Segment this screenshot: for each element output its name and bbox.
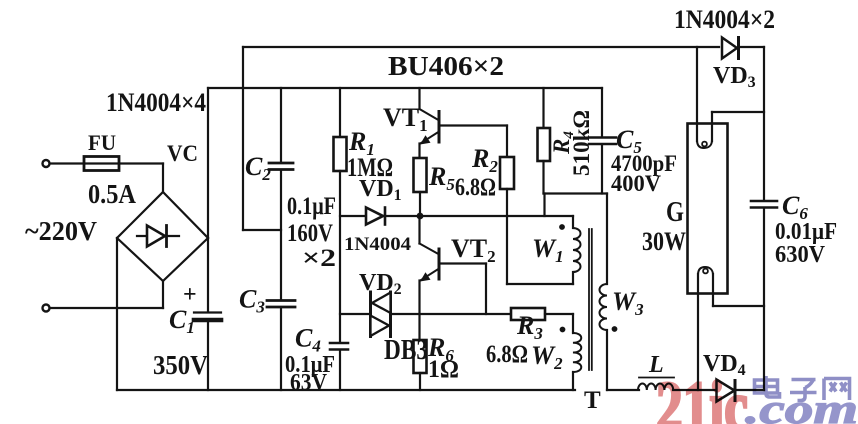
wire lower terminal to bridge bottom (50, 307, 163, 309)
wire VD1 row y=216 (340, 215, 573, 217)
inductor L (638, 383, 673, 390)
svg-text:21ic: 21ic (656, 368, 748, 424)
wire bridge left vertex to bottom rail (116, 238, 118, 390)
node upper input terminal (43, 160, 50, 167)
wire +rail y=88 (208, 87, 602, 89)
capacitor C5 (601, 88, 603, 136)
watermark char dian (755, 376, 780, 397)
svg-text:63V: 63V (290, 370, 328, 396)
wire fuse to bridge top (119, 162, 163, 164)
wire right column x=764 (763, 47, 765, 200)
svg-text:0.5A: 0.5A (88, 179, 136, 209)
wire x=243 down from top rail (242, 47, 244, 230)
bridge internal diode (137, 235, 179, 237)
rectifier bridge VC (diamond) (117, 192, 208, 281)
diac VD2 DB3 (369, 292, 372, 337)
node W2 phase dot (560, 327, 566, 333)
resistor R4 510k (542, 88, 544, 128)
svg-text:DB3: DB3 (384, 335, 428, 366)
svg-text:1Ω: 1Ω (428, 356, 459, 383)
wire W1 bottom (507, 283, 573, 285)
node junction dot midpoint (417, 213, 424, 220)
svg-text:30W: 30W (642, 227, 686, 256)
svg-text:~220V: ~220V (25, 216, 97, 246)
wire bridge right vertex down to C1 (207, 238, 209, 312)
wire y=193 row (544, 192, 608, 194)
wire bridge right vertex up to +rail (207, 88, 209, 238)
capacitor C6 (751, 200, 777, 203)
lamp bottom filament (697, 274, 699, 390)
svg-text:0.1μF: 0.1μF (287, 193, 336, 220)
wire lamp top-left pin to top rail (696, 47, 698, 141)
node W3 phase dot (612, 326, 618, 332)
diode VD1 1N4004 (366, 208, 383, 225)
watermark char wang (824, 379, 850, 401)
svg-text:VC: VC (167, 141, 198, 166)
wire lamp top-right pin (712, 111, 764, 113)
winding W3 (600, 284, 608, 330)
watermark char zi (790, 380, 817, 401)
winding W2 (572, 314, 574, 333)
svg-text:510kΩ: 510kΩ (569, 110, 594, 176)
diode VD3 (722, 38, 737, 59)
wire W3 to L (607, 389, 639, 391)
watermark 21ic.com (656, 368, 858, 424)
transformer core (588, 229, 590, 370)
wire input to fuse (50, 162, 84, 164)
svg-text:G: G (666, 197, 684, 228)
resistor R5 6.8 (414, 158, 427, 192)
svg-text:6.8Ω: 6.8Ω (455, 174, 496, 201)
svg-text:1N4004×4: 1N4004×4 (106, 88, 206, 117)
svg-text:630V: 630V (775, 242, 826, 268)
svg-text:160V: 160V (287, 220, 333, 247)
svg-text:1N4004×2: 1N4004×2 (674, 5, 775, 34)
wire VT2 base drop (485, 264, 487, 315)
wire bottom rail (117, 389, 575, 391)
resistor R3 6.8 (511, 308, 545, 320)
svg-text:400V: 400V (611, 171, 661, 196)
resistor R1 1M (339, 88, 341, 137)
resistor R6 1 (414, 340, 427, 373)
label R4 510k rotated (549, 110, 594, 176)
wire top rail y=47 (243, 46, 719, 48)
winding W1 (572, 216, 574, 228)
wire x=544 drop to midpoint (543, 194, 545, 217)
lamp top filament (697, 140, 712, 148)
wire L to VD4 (673, 389, 717, 391)
lamp G tube (688, 124, 728, 294)
svg-text:6.8Ω: 6.8Ω (486, 341, 528, 368)
transistor VT1 (418, 88, 420, 109)
svg-text:350V: 350V (153, 350, 208, 380)
wire DB3 row y=314 (340, 313, 370, 315)
capacitor C4 (330, 342, 348, 345)
svg-text:FU: FU (88, 130, 116, 155)
wire lamp bottom-right pin (713, 305, 764, 307)
node W1 phase dot (559, 224, 565, 230)
fuse FU 0.5A (84, 162, 119, 164)
capacitor C3 (267, 299, 295, 302)
transistor VT2 (418, 216, 420, 244)
diode VD4 (717, 380, 735, 402)
wire x=607 down to W3 (606, 194, 608, 285)
svg-text:BU406×2: BU406×2 (388, 51, 504, 81)
capacitor C2 (280, 88, 282, 162)
resistor R2 6.8 (506, 126, 508, 158)
node lower input terminal (43, 305, 50, 312)
svg-text:×2: ×2 (302, 245, 336, 272)
svg-text:1N4004: 1N4004 (344, 234, 412, 255)
svg-text:T: T (584, 387, 601, 414)
capacitor C1 (electrolytic, 350V) (194, 311, 221, 313)
